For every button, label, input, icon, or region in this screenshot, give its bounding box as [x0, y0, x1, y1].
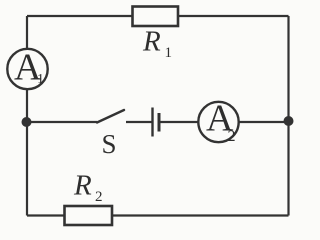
svg-text:1: 1: [37, 72, 44, 87]
ammeter A1: [7, 49, 47, 89]
battery short plate: [158, 113, 161, 132]
svg-text:1: 1: [165, 45, 173, 61]
wire switch to battery: [126, 121, 152, 123]
resistor R1: [133, 7, 179, 27]
battery long plate: [151, 108, 153, 137]
svg-text:2: 2: [228, 128, 236, 145]
wire middle branch left: [27, 121, 97, 123]
svg-text:2: 2: [95, 189, 103, 205]
wire left: [26, 16, 28, 216]
svg-text:R: R: [73, 170, 92, 202]
node right junction: [284, 116, 294, 126]
wire top: [27, 15, 289, 17]
switch S: [97, 110, 124, 123]
svg-text:R: R: [142, 26, 161, 58]
wire battery to A2: [161, 121, 200, 123]
wire right: [287, 16, 289, 216]
ammeter A2: [198, 102, 238, 142]
wire A2 to right: [239, 121, 289, 123]
resistor R2: [65, 206, 113, 225]
wire bottom: [27, 214, 289, 216]
svg-text:S: S: [102, 129, 117, 159]
node left junction: [22, 117, 32, 127]
